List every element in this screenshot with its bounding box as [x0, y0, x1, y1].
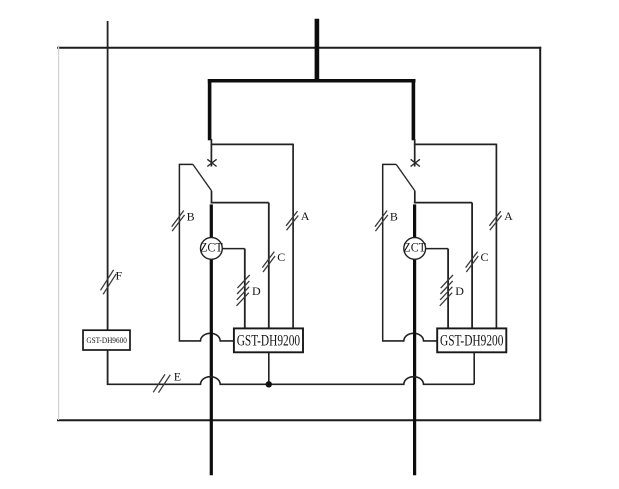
svg-text:GST-DH9600: GST-DH9600: [86, 335, 127, 345]
svg-text:E: E: [174, 370, 181, 384]
svg-text:F: F: [116, 268, 123, 282]
